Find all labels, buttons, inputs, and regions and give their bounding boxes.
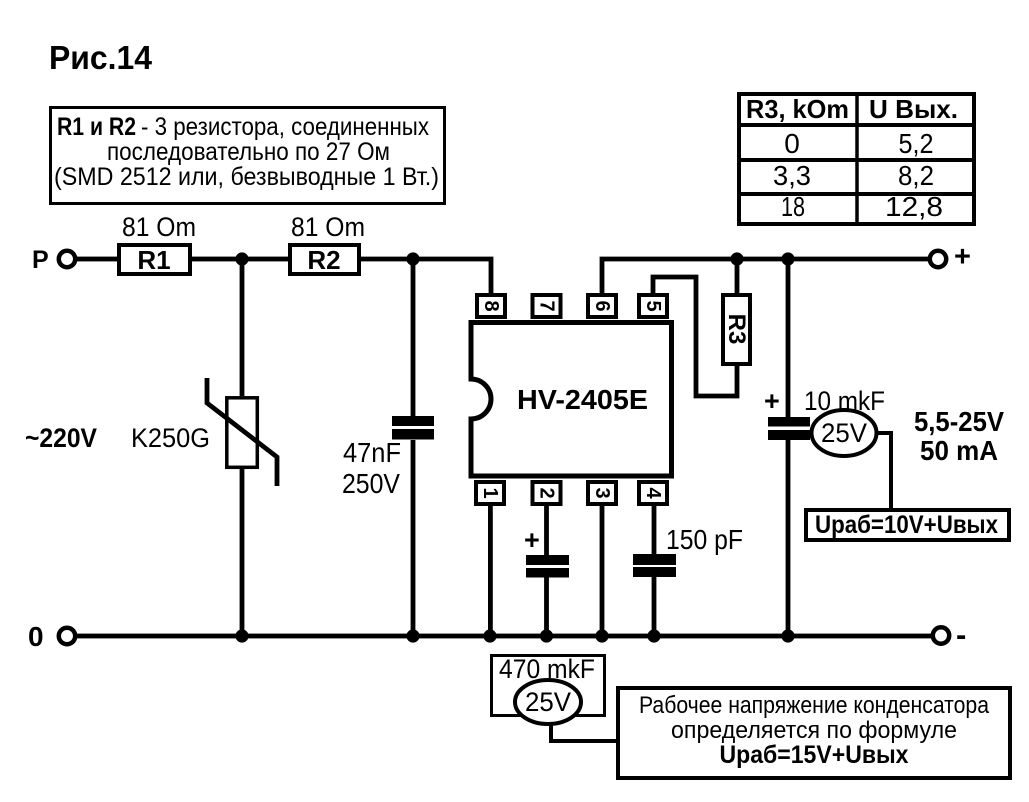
wire ellipse to Upab box <box>876 433 891 508</box>
wire pin1 down <box>488 504 493 636</box>
svg-text:47nF: 47nF <box>343 437 401 468</box>
box C 470mkF label <box>492 654 605 716</box>
wire 10mkF branch down <box>786 259 791 417</box>
resistor R2 <box>290 245 359 275</box>
terminal minus <box>933 627 949 643</box>
capacitor C2 electrolytic <box>526 555 569 578</box>
box Upab=10V+Uvyh <box>806 510 1009 540</box>
svg-text:R3, kOm: R3, kOm <box>746 94 849 124</box>
svg-text:R3: R3 <box>723 314 750 345</box>
svg-text:8: 8 <box>480 300 502 311</box>
wire varistor branch down <box>240 259 245 396</box>
capacitor C3 150pF <box>633 554 676 577</box>
svg-text:2: 2 <box>536 487 558 498</box>
svg-text:+: + <box>954 241 971 273</box>
svg-text:Рис.14: Рис.14 <box>49 39 153 76</box>
wire 47nF branch down <box>411 259 416 416</box>
svg-text:-: - <box>956 617 966 652</box>
junction dot C3/rail <box>647 629 660 642</box>
pin 3 <box>588 482 616 504</box>
wire 47nF to bottom rail <box>411 440 416 636</box>
svg-text:0: 0 <box>784 128 800 159</box>
note box R1/R2 explanation <box>51 108 445 204</box>
svg-text:~220V: ~220V <box>25 423 97 453</box>
node junction dot 47nF branch <box>406 252 419 265</box>
svg-text:+: + <box>524 525 540 555</box>
bottom rail wire <box>77 634 931 639</box>
junction dot varistor/rail <box>235 629 248 642</box>
wire pin3 down <box>600 504 605 636</box>
junction dot C2/rail <box>540 629 553 642</box>
wire P to R1 <box>77 257 117 262</box>
svg-text:5: 5 <box>642 300 664 311</box>
svg-text:U Вых.: U Вых. <box>869 94 958 124</box>
capacitor 47nF 250V <box>392 416 434 440</box>
svg-text:(SMD 2512 или, безвыводные 1 В: (SMD 2512 или, безвыводные 1 Вт.) <box>54 163 439 191</box>
formula box <box>618 688 1010 778</box>
wire varistor to bottom rail <box>240 469 245 636</box>
svg-text:50 mA: 50 mA <box>920 435 998 466</box>
svg-text:81 Om: 81 Om <box>122 212 196 242</box>
junction dot pin1/rail <box>483 629 496 642</box>
svg-text:25V: 25V <box>821 418 867 448</box>
terminal plus <box>930 251 946 267</box>
pin 1 <box>476 482 504 504</box>
voltage ellipse 25V of C 470mkF <box>515 680 581 724</box>
svg-text:4: 4 <box>642 487 664 499</box>
svg-text:HV-2405E: HV-2405E <box>517 384 648 415</box>
wire pin5 to R3 bottom <box>653 277 737 396</box>
svg-text:5,2: 5,2 <box>899 128 934 159</box>
svg-text:7: 7 <box>536 300 558 311</box>
svg-text:150 pF: 150 pF <box>666 524 743 555</box>
IC U1 HV-2405E body <box>465 323 672 477</box>
svg-text:Uраб=15V+Uвых: Uраб=15V+Uвых <box>720 741 909 769</box>
svg-text:+: + <box>764 386 780 416</box>
voltage ellipse 25V of C 10mkF <box>812 410 877 456</box>
svg-text:12,8: 12,8 <box>885 191 943 222</box>
svg-text:18: 18 <box>781 191 805 222</box>
wire pin4 down <box>652 504 657 554</box>
svg-text:1: 1 <box>479 487 501 498</box>
svg-text:последовательно по 27 Ом: последовательно по 27 Ом <box>107 138 390 166</box>
svg-text:5,5-25V: 5,5-25V <box>914 406 1004 437</box>
pin 6 <box>588 295 616 317</box>
table R3/U Вых <box>737 92 976 226</box>
wire pin6 to plus terminal <box>602 259 928 295</box>
wire R2 to pin8 corner <box>361 259 491 295</box>
pin 4 <box>639 482 667 504</box>
terminal 0 <box>59 628 75 644</box>
junction dot 10mkF/rail <box>781 629 794 642</box>
wire C 10mkF to bottom rail <box>786 440 791 636</box>
wire pin2 down <box>544 504 549 555</box>
capacitor C 10mkF <box>768 417 810 440</box>
varistor K250G <box>207 378 277 486</box>
wire C3 to bottom rail <box>652 577 657 636</box>
wire ellipse to formula box <box>551 723 616 741</box>
svg-text:81 Om: 81 Om <box>291 212 365 242</box>
wire R3 top lead <box>735 259 740 295</box>
svg-text:R1 и R2: R1 и R2 <box>57 113 136 141</box>
pin 7 <box>533 295 561 317</box>
svg-text:3: 3 <box>591 487 613 498</box>
svg-text:K250G: K250G <box>131 423 210 453</box>
svg-text:определяется по формуле: определяется по формуле <box>671 717 957 744</box>
svg-text:250V: 250V <box>342 468 400 499</box>
svg-text:Рабочее напряжение конденсатор: Рабочее напряжение конденсатора <box>639 692 990 719</box>
pin 2 <box>533 482 561 504</box>
terminal P <box>59 251 75 267</box>
svg-text:R1: R1 <box>137 245 170 275</box>
pin 8 <box>477 295 505 317</box>
pin 5 <box>639 295 667 317</box>
junction dot 10mkF branch <box>781 252 794 265</box>
wire C2 to bottom rail <box>544 577 549 636</box>
svg-text:25V: 25V <box>525 687 571 717</box>
svg-text:- 3 резистора, соединенных: - 3 резистора, соединенных <box>141 113 429 141</box>
resistor R1 <box>119 245 190 275</box>
junction dot 47nF/rail <box>406 629 419 642</box>
node junction dot R1-R2 <box>235 252 248 265</box>
junction dot R3 top <box>730 252 743 265</box>
svg-text:P: P <box>32 246 49 274</box>
svg-text:6: 6 <box>591 300 613 311</box>
svg-text:3,3: 3,3 <box>773 160 811 191</box>
wire R1 to R2 <box>192 257 288 262</box>
svg-text:8,2: 8,2 <box>898 160 934 191</box>
svg-text:R2: R2 <box>307 245 340 275</box>
resistor R3 <box>723 295 750 364</box>
svg-text:0: 0 <box>28 621 44 652</box>
svg-text:Uраб=10V+Uвых: Uраб=10V+Uвых <box>815 511 998 539</box>
junction dot pin3/rail <box>595 629 608 642</box>
